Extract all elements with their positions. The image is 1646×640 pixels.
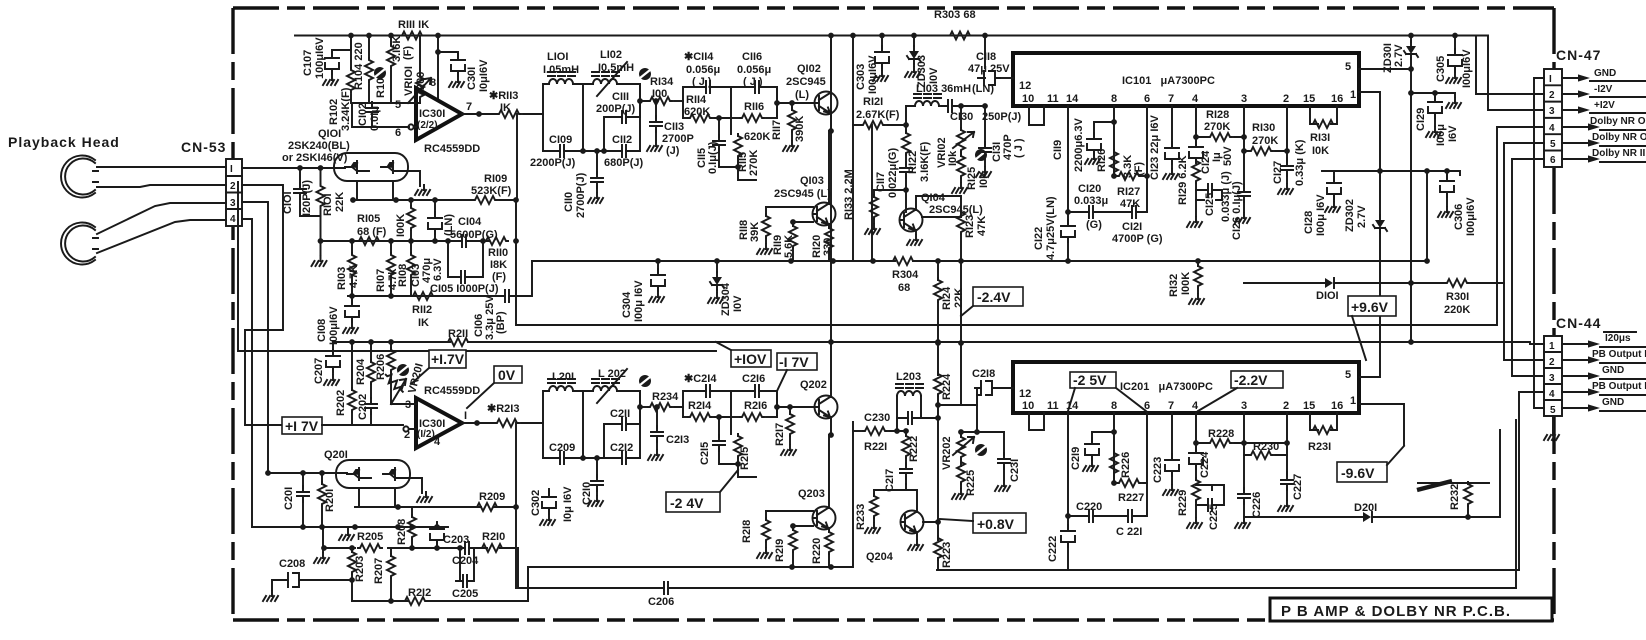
svg-text:5: 5 (1345, 61, 1351, 73)
svg-text:3.I6K(F): 3.I6K(F) (919, 141, 931, 182)
capacitor C301 (438, 52, 458, 57)
capacitor C210 w ground (583, 458, 604, 477)
resistor R206 (390, 342, 392, 350)
svg-text:I00μ: I00μ (1435, 124, 1447, 146)
resistor R109 523K (473, 196, 497, 204)
resistor R112 1K (411, 292, 435, 300)
resistor R234 (640, 406, 648, 408)
svg-text:R2I6: R2I6 (744, 400, 767, 412)
svg-text:RII4: RII4 (686, 94, 707, 106)
svg-text:CII9: CII9 (1052, 140, 1064, 160)
svg-text:( J ): ( J ) (692, 76, 712, 88)
opamp1 output (462, 422, 495, 424)
capacitor C302 (548, 489, 550, 494)
mid rail y325 (516, 200, 1412, 325)
svg-text:C204: C204 (452, 555, 479, 567)
capacitor C201 (302, 473, 304, 488)
CN-53 pin wires down (242, 185, 283, 527)
svg-text:R206: R206 (375, 354, 387, 380)
svg-text:+I2V: +I2V (1594, 100, 1615, 111)
svg-text:2SK240(BL): 2SK240(BL) (288, 140, 350, 152)
svg-text:C209: C209 (549, 442, 575, 454)
svg-text:12: 12 (1019, 388, 1031, 400)
svg-text:CI04: CI04 (458, 216, 482, 228)
svg-text:5600P(G): 5600P(G) (450, 229, 498, 241)
svg-text:68: 68 (898, 282, 910, 294)
rail y342 to CN-44 pin1 (1380, 342, 1544, 344)
resistor R205 (358, 544, 382, 552)
svg-text:-9.6V: -9.6V (1341, 465, 1375, 481)
zener ZD303 (913, 36, 915, 47)
resistor R232 (1418, 483, 1489, 484)
svg-text:R232: R232 (1449, 484, 1461, 510)
rail y527 (252, 526, 448, 528)
resistor R123 47K (922, 212, 961, 217)
transistor Q104 (900, 209, 923, 232)
svg-text:(2/2): (2/2) (417, 120, 438, 131)
svg-text:RI26: RI26 (1096, 149, 1108, 172)
lower rail y570 (937, 569, 1519, 571)
svg-text:C202: C202 (357, 394, 369, 420)
pin6 arrow Dolby NR II (1562, 148, 1646, 163)
resistor R107 4.7k (390, 241, 392, 253)
svg-text:✱R2I3: ✱R2I3 (487, 403, 519, 415)
junction dots top rail (348, 33, 354, 39)
svg-text:RII2: RII2 (412, 304, 432, 316)
svg-text:L203: L203 (896, 371, 921, 383)
resistor R228 wire (1196, 442, 1287, 444)
svg-text:R229: R229 (1177, 490, 1189, 516)
node wire filter input (543, 84, 583, 151)
resistor R229 (1192, 478, 1200, 502)
svg-text:RI3I: RI3I (1310, 132, 1330, 144)
capacitor C209 (543, 457, 583, 459)
svg-text:620K: 620K (684, 106, 710, 118)
svg-text:10: 10 (1022, 400, 1034, 412)
svg-text:390K: 390K (794, 116, 806, 142)
pin1 arrow GND (1562, 68, 1646, 82)
svg-text:+I 7V: +I 7V (285, 418, 319, 434)
svg-text:4.7K: 4.7K (348, 265, 360, 288)
IC201 pin1 wire (1360, 404, 1404, 445)
capacitor C114 (683, 87, 731, 118)
svg-text:RII7: RII7 (771, 120, 783, 140)
svg-text:22K: 22K (334, 192, 346, 212)
pin4 arrow PB Output R (1562, 381, 1646, 396)
svg-text:5: 5 (395, 99, 401, 111)
capacitor C104 series (456, 235, 472, 247)
resistor 100K R108 col (410, 200, 412, 207)
svg-text:RI23: RI23 (964, 215, 976, 238)
svg-text:RII0: RII0 (488, 247, 508, 259)
svg-text:I0K: I0K (978, 171, 990, 188)
svg-text:5: 5 (1550, 139, 1556, 150)
svg-text:C208: C208 (279, 558, 305, 570)
zener ZD304 (716, 261, 718, 272)
resistor R118 39K (765, 207, 767, 216)
svg-text:C2I2: C2I2 (610, 442, 633, 454)
pin5 arrow Dolby NR O (1562, 132, 1646, 147)
capacitor C120 wire y212 (1068, 211, 1147, 213)
svg-text:100μI6V: 100μI6V (314, 37, 326, 79)
svg-text:C305: C305 (1435, 56, 1447, 82)
svg-text:QI03: QI03 (800, 175, 824, 187)
IC101 pin1 wire down bus (1359, 92, 1380, 377)
svg-text:RI33 2.2M: RI33 2.2M (843, 169, 855, 220)
ground below CN-44 (1544, 416, 1559, 440)
resistor R103 4.7K (351, 241, 353, 253)
IC101 pin stubs (1029, 106, 1337, 212)
resistor R224 (934, 372, 942, 396)
svg-text:10: 10 (1022, 93, 1034, 105)
capacitor C218 (977, 395, 980, 432)
voltage label -9.6V (1337, 446, 1404, 482)
svg-text:R222: R222 (908, 436, 920, 462)
svg-text:RI05: RI05 (357, 213, 380, 225)
IC101 pin5 wire (1359, 68, 1411, 70)
svg-text:C2I0: C2I0 (581, 482, 593, 505)
wire Q203 base (766, 510, 813, 512)
svg-text:PB Output L: PB Output L (1592, 349, 1646, 360)
rail y93 C129 (1411, 93, 1455, 97)
svg-text:RII6: RII6 (744, 101, 764, 113)
svg-text:C227: C227 (1292, 474, 1304, 500)
resistor R201 (321, 473, 323, 484)
diode D101 wire (1244, 282, 1411, 284)
capacitor C219 (1092, 432, 1114, 441)
svg-text:7: 7 (1168, 400, 1174, 412)
ground rail527 (322, 548, 324, 552)
rail to CN-47 pin2 (1476, 36, 1544, 95)
resistor R227 (1114, 475, 1147, 483)
rail y601 (352, 567, 528, 601)
svg-text:16: 16 (1331, 400, 1343, 412)
svg-text:(L): (L) (795, 89, 809, 101)
playback head R (61, 222, 98, 264)
svg-text:✱CII4: ✱CII4 (684, 51, 714, 63)
diode D201 wire (1244, 430, 1500, 517)
potentiometer VR201 (383, 372, 406, 395)
capacitor C212 (604, 457, 640, 459)
capacitor 2200u6.3V (1094, 122, 1114, 136)
svg-text:QI04: QI04 (921, 192, 946, 204)
rail y548 (323, 507, 516, 588)
svg-text:R2I9: R2I9 (774, 539, 786, 562)
svg-text:6: 6 (1144, 93, 1150, 105)
svg-text:RI2I: RI2I (863, 96, 883, 108)
svg-text:C230: C230 (864, 412, 890, 424)
svg-text:4: 4 (434, 436, 441, 448)
connector CN-44 box (1544, 336, 1562, 416)
svg-text:R234: R234 (652, 391, 679, 403)
svg-text:✱C2I4: ✱C2I4 (684, 373, 717, 385)
trimmer L102 (639, 68, 651, 80)
resistor R207 (390, 548, 392, 556)
svg-text:RI25: RI25 (966, 167, 978, 190)
capacitor C110 w ground (583, 151, 604, 174)
resistor R129 6.2K (1192, 159, 1200, 183)
svg-text:(BP): (BP) (495, 311, 507, 334)
svg-text:RI27: RI27 (1117, 186, 1140, 198)
svg-text:VRIOI: VRIOI (403, 66, 415, 96)
svg-text:C303: C303 (855, 64, 867, 90)
resistor R110 (484, 237, 508, 245)
zener ZD301 (1410, 36, 1412, 43)
resistor R210 (480, 544, 504, 552)
capacitor C211 (604, 391, 640, 458)
resistor R225 (957, 460, 965, 484)
resistor R120 330 (825, 226, 833, 250)
resistor R209 (475, 503, 499, 511)
svg-text:C306: C306 (1453, 204, 1465, 230)
svg-text:IK: IK (500, 102, 511, 114)
svg-text:I: I (230, 164, 233, 175)
capacitor C106 series (499, 290, 515, 302)
transistor Q101 dual FET (334, 153, 408, 181)
resistor R202 (351, 342, 353, 390)
outer dashed border (233, 8, 1554, 620)
svg-text:(LN): (LN) (972, 83, 994, 95)
svg-text:R228: R228 (1208, 428, 1234, 440)
opamp output (462, 113, 497, 115)
capacitor C221 (1122, 510, 1138, 522)
svg-text:CI27: CI27 (1272, 161, 1284, 184)
svg-text:2.67K(F): 2.67K(F) (856, 109, 900, 121)
capacitor C128 (1333, 171, 1335, 180)
svg-text:RI28: RI28 (1206, 109, 1229, 121)
svg-text:R2I5: R2I5 (739, 447, 751, 470)
resistor R204 (370, 342, 372, 362)
svg-text:15: 15 (1303, 400, 1315, 412)
svg-text:LI02: LI02 (600, 49, 622, 61)
svg-text:CI28: CI28 (1303, 211, 1315, 234)
svg-text:C226: C226 (1251, 492, 1263, 518)
inductor L101 (548, 72, 575, 84)
svg-text:CII8: CII8 (976, 51, 996, 63)
svg-text:DIOI: DIOI (1316, 290, 1339, 302)
head wires (97, 167, 226, 253)
transistor Q204 (901, 511, 924, 534)
resistor R121 2.67K (853, 124, 861, 126)
resistor R108 (410, 241, 412, 253)
svg-text:CN-53: CN-53 (181, 139, 226, 155)
svg-text:RI32: RI32 (1168, 274, 1180, 297)
svg-text:50V: 50V (1222, 146, 1234, 166)
svg-text:I0V: I0V (732, 295, 744, 312)
svg-text:-2 4V: -2 4V (670, 495, 704, 511)
capacitor C226 (1243, 443, 1245, 490)
svg-text:R2II: R2II (448, 328, 468, 340)
svg-text:4: 4 (1549, 123, 1555, 134)
voltage label -2.4V (961, 287, 1023, 316)
voltage label +1.7V (411, 350, 466, 384)
wire Q103 base (766, 206, 813, 208)
svg-text:(G): (G) (1086, 219, 1102, 231)
svg-text:RIII IK: RIII IK (398, 19, 429, 31)
svg-text:R226: R226 (1120, 452, 1132, 478)
capacitor C227 (1286, 472, 1288, 476)
transistor Q103 (813, 203, 836, 226)
svg-text:GND: GND (1602, 397, 1624, 408)
pin2 arrow -12V (1562, 84, 1646, 98)
capacitor C107 (325, 52, 339, 74)
inductor L202 adjustable (592, 379, 619, 391)
capacitor C206 (658, 582, 674, 594)
opamp input wires (409, 103, 416, 127)
svg-text:RI09: RI09 (484, 173, 507, 185)
svg-text:523K(F): 523K(F) (471, 185, 512, 197)
capacitor C115 (719, 118, 731, 137)
Q101 leads (357, 171, 420, 200)
capacitor C112 (604, 150, 640, 152)
capacitor C230 (897, 417, 921, 419)
svg-text:Playback Head: Playback Head (8, 134, 120, 150)
svg-text:-2.4V: -2.4V (977, 289, 1011, 305)
svg-text:1: 1 (1350, 395, 1356, 407)
resistor R216 (731, 416, 740, 418)
resistor R220 (825, 530, 833, 554)
rail y171 C306 (1322, 171, 1460, 175)
svg-text:C222: C222 (1047, 536, 1059, 562)
resistor R113 (497, 110, 521, 118)
svg-text:3: 3 (1241, 400, 1247, 412)
svg-text:RI30: RI30 (1252, 122, 1275, 134)
resistor R131 (1311, 120, 1335, 128)
resistor R102 (350, 36, 352, 69)
capacitor C125 (1196, 190, 1222, 200)
svg-text:R225: R225 (965, 470, 977, 496)
resistor R133 2.2M (874, 189, 906, 191)
capacitor C130 (942, 100, 958, 112)
svg-text:-2.2V: -2.2V (1234, 372, 1268, 388)
svg-text:QIOI: QIOI (318, 128, 341, 140)
capacitor C231 (1003, 432, 1005, 455)
voltage label +9.6V (1348, 296, 1396, 360)
feedback wire from output down (516, 114, 518, 200)
svg-text:1: 1 (1350, 89, 1356, 101)
capacitor C208 (272, 580, 284, 590)
svg-text:Dolby NR Ou: Dolby NR Ou (1590, 116, 1646, 127)
svg-text:ZD303: ZD303 (916, 55, 928, 88)
svg-text:L 202: L 202 (598, 368, 626, 380)
svg-text:8: 8 (1111, 400, 1117, 412)
svg-text:R202: R202 (335, 390, 347, 416)
resistor R122 3.16K (905, 125, 907, 133)
svg-text:R303 68: R303 68 (934, 9, 976, 21)
svg-text:CN-44: CN-44 (1556, 315, 1601, 331)
svg-text:11: 11 (1047, 400, 1059, 412)
svg-text:L20I: L20I (552, 371, 574, 383)
svg-text:CI2I: CI2I (1122, 221, 1142, 233)
svg-text:I6V: I6V (1447, 125, 1459, 142)
resistor R212 (403, 597, 427, 605)
svg-text:68 (F): 68 (F) (357, 226, 387, 238)
svg-text:-I2V: -I2V (1594, 84, 1613, 95)
resistor R111 1K (400, 32, 424, 40)
voltage label +0.8V (940, 513, 1026, 533)
inductor L201 (548, 379, 575, 391)
svg-text:R2I2: R2I2 (408, 587, 431, 599)
vertical bus x961 (960, 261, 962, 343)
resistor R218 (765, 511, 767, 520)
capacitor C202 (365, 398, 377, 414)
voltage label +10V (716, 342, 771, 367)
svg-text:2200P(J): 2200P(J) (530, 157, 576, 169)
svg-text:15: 15 (1303, 93, 1315, 105)
svg-text:I0μI6V: I0μI6V (478, 59, 490, 92)
rail y351 (238, 182, 716, 351)
capacitor C217 (900, 463, 912, 479)
svg-text:CI02: CI02 (357, 103, 369, 126)
svg-text:0.Iμ(J): 0.Iμ(J) (707, 141, 719, 174)
vertical x1411 lower (1410, 93, 1412, 342)
resistor R124 22K (937, 261, 939, 280)
svg-text:14: 14 (1066, 93, 1079, 105)
svg-text:270K: 270K (748, 150, 760, 176)
svg-text:R230: R230 (1253, 441, 1279, 453)
svg-text:R208: R208 (396, 519, 408, 545)
svg-text:Q202: Q202 (800, 379, 827, 391)
svg-text:CII6: CII6 (742, 51, 762, 63)
svg-text:C2I9: C2I9 (1070, 447, 1082, 470)
svg-text:4.7μ25V(LN): 4.7μ25V(LN) (1045, 196, 1057, 260)
capacitor C205 loop (456, 548, 474, 581)
resistor R231 (1311, 426, 1335, 434)
svg-text:2.7V: 2.7V (1393, 44, 1405, 67)
svg-text:12: 12 (1019, 80, 1031, 92)
svg-text:3.24K(F): 3.24K(F) (340, 87, 352, 131)
inductor L102 adjustable (592, 72, 619, 84)
svg-text:C223: C223 (1152, 457, 1164, 483)
svg-text:8: 8 (430, 77, 436, 89)
pin1 arrow 120us (1562, 332, 1646, 348)
svg-text:C205: C205 (452, 588, 478, 600)
svg-text:RI34: RI34 (650, 76, 674, 88)
svg-text:IC201 μA7300PC: IC201 μA7300PC (1120, 381, 1213, 393)
inductor L103 (906, 106, 915, 125)
capacitor C224 (1189, 447, 1203, 469)
capacitor C223 (1165, 454, 1179, 476)
svg-text:CN-47: CN-47 (1556, 47, 1601, 63)
resistor R221 (853, 430, 863, 432)
svg-text:R23I: R23I (1308, 441, 1331, 453)
svg-text:LIOI: LIOI (547, 51, 568, 63)
resistor R126 (1110, 150, 1118, 174)
svg-text:I0k: I0k (947, 150, 959, 166)
svg-text:4700P (G): 4700P (G) (1112, 233, 1163, 245)
svg-text:IC30I: IC30I (419, 108, 445, 120)
pin2 arrow PB Output L (1562, 349, 1646, 364)
svg-text:C2I3: C2I3 (666, 434, 689, 446)
svg-text:39K: 39K (749, 222, 761, 242)
svg-text:( J ): ( J ) (1013, 138, 1025, 158)
IC201 box (1013, 362, 1359, 413)
wire to Q202 base (777, 391, 814, 417)
capacitor C113 w ground (655, 101, 657, 118)
capacitor C203 (436, 522, 438, 527)
svg-text:RI03: RI03 (336, 267, 348, 290)
svg-text:R224: R224 (941, 373, 953, 400)
svg-text:2: 2 (1549, 357, 1555, 368)
opamp1 input wires (352, 404, 416, 429)
svg-text:3: 3 (1241, 93, 1247, 105)
vertical bus x872 (871, 125, 873, 261)
svg-text:R209: R209 (479, 491, 505, 503)
Q201 wires (268, 473, 422, 507)
junction dots mid rails (655, 258, 661, 264)
svg-text:2SC945 (L): 2SC945 (L) (774, 188, 831, 200)
svg-text:I0V: I0V (928, 67, 940, 84)
